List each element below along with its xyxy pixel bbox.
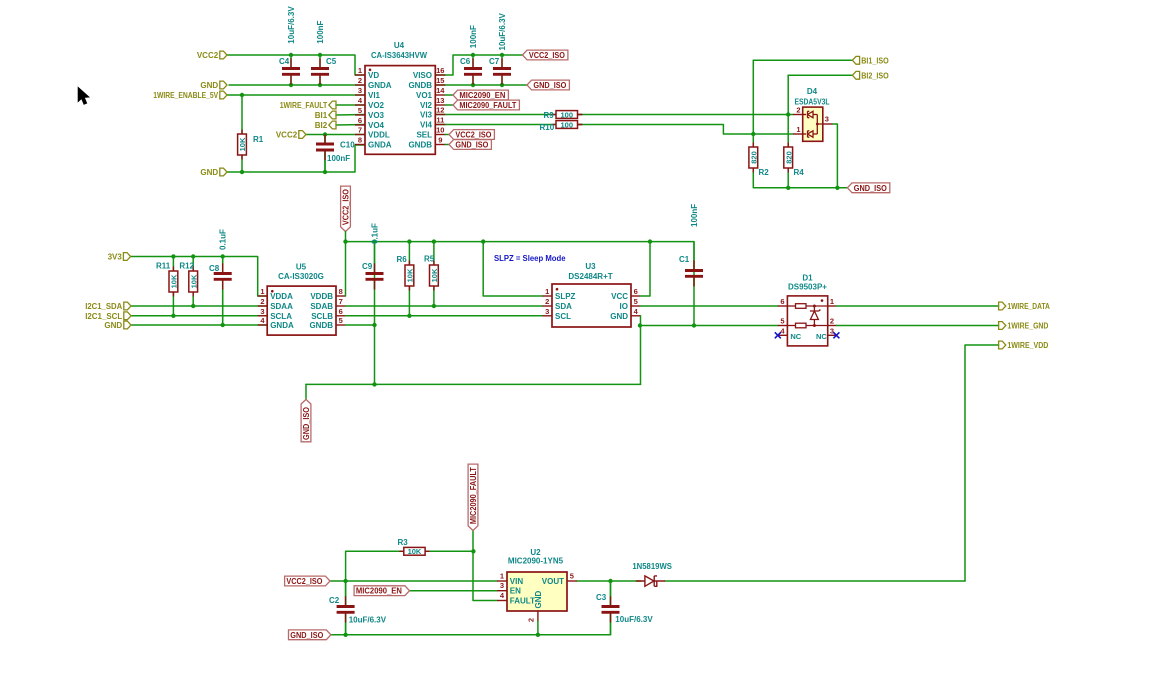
svg-text:5: 5 [570, 572, 574, 581]
svg-text:SDA: SDA [555, 302, 572, 311]
wire U4 VI3 pin12 to R9 [435, 114, 556, 116]
U5 pin1 dot marker [271, 290, 274, 293]
junction VOUT C3 [608, 579, 612, 583]
wire gnd horizontal lower [306, 383, 641, 385]
svg-text:GNDA: GNDA [368, 81, 392, 90]
svg-text:VO3: VO3 [368, 111, 385, 120]
wire SLPZ branch [483, 242, 542, 296]
wire stub pin9 [445, 144, 449, 146]
hier label 1WIRE_GND [999, 322, 1006, 330]
junction rail SLPZ [481, 239, 485, 243]
svg-text:6: 6 [358, 116, 362, 125]
junction rail U3 VCC [648, 239, 652, 243]
svg-text:GNDA: GNDA [270, 321, 294, 330]
svg-text:820: 820 [749, 151, 758, 164]
hier label 1WIRE_VDD [999, 341, 1006, 349]
svg-text:VO2: VO2 [368, 101, 385, 110]
global label GND_ISO vertical [301, 399, 311, 441]
global label GND_ISO right [847, 183, 889, 193]
esd protector D1 DS9503P+ body [787, 296, 827, 346]
svg-text:6: 6 [634, 287, 638, 296]
svg-text:SLPZ = Sleep Mode: SLPZ = Sleep Mode [494, 254, 566, 263]
D4 pin3 stub [823, 123, 833, 125]
wire R4 bottom [787, 168, 789, 188]
svg-text:0.1uF: 0.1uF [371, 223, 380, 244]
svg-text:U3: U3 [585, 262, 596, 271]
wire U2 GND pin down [537, 621, 539, 635]
svg-text:100: 100 [560, 110, 573, 119]
wire D1 pin2 to 1WIRE_GND [836, 325, 998, 327]
wire U4 VI4 pin11 to R10 [435, 124, 556, 126]
svg-text:1WIRE_GND: 1WIRE_GND [1007, 322, 1048, 331]
D1 internal resistor bottom [787, 325, 795, 327]
D4 internal diode top [808, 111, 814, 117]
U3 pin1 dot marker [556, 288, 559, 291]
svg-text:1WIRE_FAULT: 1WIRE_FAULT [280, 101, 328, 110]
svg-text:10K: 10K [406, 268, 415, 282]
D1 internal zener [813, 305, 816, 308]
svg-text:GND_ISO: GND_ISO [302, 407, 311, 440]
svg-text:6: 6 [780, 297, 784, 306]
D1 pin6 [778, 305, 788, 307]
svg-text:2: 2 [545, 297, 549, 306]
svg-text:GND_ISO: GND_ISO [290, 631, 323, 640]
wire BI2 to U4 pin6 [336, 124, 365, 127]
svg-text:NC: NC [790, 332, 801, 341]
svg-text:C6: C6 [460, 57, 471, 66]
svg-text:GND: GND [534, 591, 543, 609]
svg-text:0.1uF: 0.1uF [219, 229, 228, 250]
junction D4 pin2 node [786, 112, 790, 116]
capacitor C1 [693, 242, 695, 326]
hier label BI1 [329, 111, 336, 119]
wire C3 leads [610, 581, 612, 605]
svg-text:VI4: VI4 [420, 121, 433, 130]
svg-text:GNDB: GNDB [408, 81, 432, 90]
wire I2C1_SDA to U5 pin2 [131, 305, 267, 307]
hier label VCC2 [220, 51, 227, 59]
svg-text:10K: 10K [408, 547, 422, 556]
1-wire master U3 DS2484R+T body [552, 284, 631, 327]
U4 pin1 dot marker [369, 69, 372, 72]
junction SDA R12 [191, 304, 195, 308]
schottky diode 1N5819WS [636, 580, 645, 582]
svg-text:CA-IS3643HVW: CA-IS3643HVW [371, 51, 427, 60]
U4 right pins [435, 74, 445, 76]
hier label 1WIRE_ENABLE_5V [220, 91, 227, 99]
svg-text:100nF: 100nF [327, 154, 350, 163]
svg-text:R11: R11 [156, 262, 171, 271]
wire VCC2 to U4 pin7 VDDL [306, 134, 365, 136]
svg-text:16: 16 [436, 66, 444, 75]
D1 pin1 [828, 305, 837, 307]
svg-text:10K: 10K [189, 274, 198, 288]
resistor R10 [552, 124, 557, 126]
wire D1 pin1 to 1WIRE_DATA [836, 305, 998, 307]
junction R4 gnd [786, 186, 790, 190]
capacitor C10 [324, 135, 326, 145]
svg-text:GND: GND [610, 312, 628, 321]
junction U2 gnd [536, 633, 540, 637]
wire C2 leads [345, 581, 347, 605]
svg-text:5: 5 [780, 317, 784, 326]
wire GND row to U4 pin2 [229, 84, 365, 86]
junction 3V3 C8 [221, 254, 225, 258]
wire VCC2_ISO to U2 VIN [330, 580, 497, 582]
svg-text:VCC2_ISO: VCC2_ISO [286, 577, 322, 586]
junction C9 GNDB row [372, 323, 376, 327]
svg-text:VDDB: VDDB [310, 292, 333, 301]
wire stub pin14 [445, 94, 453, 96]
svg-text:VCC2_ISO: VCC2_ISO [342, 189, 351, 225]
svg-text:VI2: VI2 [420, 101, 433, 110]
global label GND_ISO top [527, 80, 569, 90]
wire SCL row U5 to U3 [346, 315, 543, 317]
wire BI2 net down to R4 [787, 115, 789, 148]
wire R3 right to fault node [425, 550, 473, 552]
vcc2_iso rail [346, 241, 695, 243]
U2 pin4 FAULT [497, 600, 507, 602]
resistor R3 [399, 550, 404, 552]
hier label BI2 [329, 121, 336, 129]
svg-text:14: 14 [436, 86, 445, 95]
svg-text:MIC2090_FAULT: MIC2090_FAULT [469, 467, 478, 524]
U5 pins [258, 295, 268, 297]
wire U4 VISO pin16 to VCC2_ISO rail [435, 55, 523, 75]
svg-text:R6: R6 [397, 255, 408, 264]
junction C6 bottom [471, 83, 475, 87]
wire U5 GNDB pin5 to C9 node [346, 324, 375, 326]
capacitor C6 [472, 55, 474, 69]
svg-text:C2: C2 [329, 596, 340, 605]
D4 pin1 stub [793, 133, 806, 135]
svg-text:C5: C5 [326, 57, 337, 66]
wire MIC2090_EN to U2 EN [410, 590, 498, 592]
svg-text:D4: D4 [807, 87, 818, 96]
wire I2C1_SCL to U5 pin3 [131, 315, 267, 317]
junction rail R5 [432, 239, 436, 243]
svg-text:SLPZ: SLPZ [555, 292, 576, 301]
junction U3 gnd [638, 323, 642, 327]
U3 pins [543, 295, 553, 297]
global label VCC2_ISO at SEL [449, 130, 494, 140]
global label MIC2090_FAULT [453, 100, 519, 110]
svg-text:1N5819WS: 1N5819WS [632, 562, 672, 571]
wire R1 bottom to GND [241, 155, 243, 172]
wire 1WIRE_VDD vertical from bottom [965, 345, 999, 581]
svg-text:13: 13 [436, 96, 444, 105]
hier label 1WIRE_DATA [999, 302, 1006, 310]
junction 3V3 R12 [191, 254, 195, 258]
svg-text:12: 12 [436, 106, 444, 115]
svg-text:1WIRE_ENABLE_5V: 1WIRE_ENABLE_5V [153, 91, 219, 100]
D1 internal resistor top [787, 305, 795, 307]
svg-text:SDAB: SDAB [310, 302, 333, 311]
svg-text:3: 3 [500, 581, 504, 590]
U2 pin5 VOUT [567, 580, 577, 582]
esd diode D4 ESDA5V3L body [803, 107, 823, 141]
svg-text:R9: R9 [544, 111, 555, 120]
svg-text:2: 2 [830, 317, 834, 326]
svg-text:R3: R3 [398, 538, 409, 547]
svg-text:VDDL: VDDL [368, 131, 390, 140]
svg-text:GNDB: GNDB [408, 141, 432, 150]
U2 pin3 EN [497, 590, 507, 592]
svg-text:3: 3 [830, 326, 834, 335]
wire 3V3 row to U5 pin1 [131, 257, 268, 297]
svg-text:EN: EN [510, 587, 521, 596]
svg-text:11: 11 [436, 116, 444, 125]
D4 pin2 stub [793, 114, 806, 116]
wire U4 GNDB pin15 to GND_ISO [435, 84, 527, 86]
wire U3 GND down [640, 316, 642, 385]
svg-text:SCLA: SCLA [270, 312, 292, 321]
junction fault R3 [471, 549, 475, 553]
wire stub pin13 [445, 104, 453, 106]
svg-text:1WIRE_DATA: 1WIRE_DATA [1007, 302, 1050, 311]
op-isolator U4 CA-IS3643HVW body [365, 66, 435, 155]
capacitor C9 [374, 242, 376, 385]
global label VCC2_ISO bottom [285, 576, 330, 586]
svg-text:VCC2: VCC2 [197, 51, 219, 60]
wire GND row right [640, 325, 778, 327]
svg-text:SEL: SEL [416, 131, 432, 140]
svg-text:R4: R4 [794, 168, 805, 177]
svg-text:MIC2090_EN: MIC2090_EN [356, 587, 402, 596]
svg-text:MIC2090_FAULT: MIC2090_FAULT [459, 101, 516, 110]
svg-text:1: 1 [260, 287, 264, 296]
junction SCL R11 [171, 314, 175, 318]
junction C4 bottom [289, 83, 293, 87]
global label VCC2_ISO vertical [341, 186, 351, 231]
svg-text:5: 5 [358, 106, 362, 115]
wire SDA row U5 to U3 [346, 305, 543, 307]
svg-text:VCC2: VCC2 [276, 131, 298, 140]
svg-text:GNDB: GNDB [309, 321, 333, 330]
svg-text:10: 10 [436, 126, 444, 135]
capacitor C4 [290, 55, 292, 69]
svg-text:C7: C7 [489, 57, 500, 66]
svg-text:MIC2090-1YN5: MIC2090-1YN5 [508, 557, 564, 566]
svg-text:VCC2_ISO: VCC2_ISO [529, 51, 565, 60]
svg-text:C3: C3 [596, 593, 607, 602]
resistor R2 [752, 143, 754, 148]
svg-text:VCC: VCC [611, 292, 628, 301]
junction rail label [343, 239, 347, 243]
regulator U2 MIC2090-1YN5 body [507, 572, 567, 611]
wire U3 IO to D1 pin6 [641, 305, 779, 307]
resistor R5 [433, 242, 435, 265]
capacitor C2 [345, 581, 347, 607]
svg-text:10K: 10K [430, 268, 439, 282]
svg-text:1: 1 [358, 66, 362, 75]
global label MIC2090_EN [453, 90, 508, 100]
global label MIC2090_FAULT vertical [468, 464, 478, 530]
junction GND C8 [221, 323, 225, 327]
hier label BI1_ISO [852, 56, 859, 64]
svg-text:VOUT: VOUT [542, 577, 564, 586]
capacitor C7 [501, 55, 503, 69]
svg-text:MIC2090_EN: MIC2090_EN [459, 91, 505, 100]
wire R10 to D4 pin1 [578, 125, 794, 135]
junction D4 pin3 gnd [835, 186, 839, 190]
svg-text:2: 2 [796, 106, 800, 115]
wire R3 left branch [346, 551, 404, 581]
svg-text:100: 100 [560, 120, 573, 129]
svg-text:10uF/6.3V: 10uF/6.3V [615, 615, 653, 624]
hier label 3V3 [123, 253, 130, 261]
resistor R11 [172, 267, 174, 272]
svg-text:D1: D1 [802, 274, 813, 283]
wire U3 VCC up to rail [641, 242, 651, 296]
svg-text:I2C1_SCL: I2C1_SCL [85, 312, 122, 321]
svg-text:VI3: VI3 [420, 111, 433, 120]
D1 pin4 NC [778, 334, 788, 336]
svg-text:VI1: VI1 [368, 91, 381, 100]
wire C8 leads [222, 257, 224, 274]
svg-text:1: 1 [500, 572, 504, 581]
resistor R12 [192, 267, 194, 272]
svg-text:U4: U4 [394, 41, 405, 50]
svg-text:IO: IO [620, 302, 628, 311]
wire 1WIRE_FAULT to U4 pin4 [336, 104, 365, 106]
svg-text:10K: 10K [238, 137, 247, 151]
svg-text:9: 9 [438, 136, 442, 145]
svg-text:5: 5 [339, 316, 343, 325]
wire R9 to D4 pin2 [578, 114, 794, 116]
junction C10 top [323, 132, 327, 136]
svg-text:100nF: 100nF [690, 204, 699, 227]
svg-text:R12: R12 [179, 262, 194, 271]
D1 pin2 [828, 325, 837, 327]
junction R1 bottom [240, 170, 244, 174]
svg-text:GND_ISO: GND_ISO [533, 81, 566, 90]
capacitor C3 [610, 581, 612, 607]
svg-text:10uF/6.3V: 10uF/6.3V [349, 616, 387, 625]
wire R11 leads [172, 257, 174, 272]
D4 internal diode bottom [808, 131, 814, 137]
junction C6 top [471, 53, 475, 57]
svg-text:BI2: BI2 [315, 121, 328, 130]
svg-text:R2: R2 [759, 168, 770, 177]
global label GND_ISO at pin9 [449, 140, 491, 150]
D4 internal bus to pin3 [817, 115, 823, 135]
svg-text:3: 3 [825, 114, 829, 123]
svg-text:R1: R1 [253, 135, 264, 144]
svg-text:DS2484R+T: DS2484R+T [568, 272, 612, 281]
wire D4 pin3 to GND_ISO [832, 124, 837, 188]
svg-text:15: 15 [436, 76, 444, 85]
wire MIC2090_FAULT vertical [473, 531, 497, 601]
capacitor C8 [222, 257, 224, 274]
wire gnd to GND_ISO label [305, 384, 307, 399]
resistor R1 [241, 130, 243, 135]
junction C10 bottom [323, 170, 327, 174]
svg-text:R5: R5 [424, 255, 435, 264]
svg-text:3: 3 [260, 307, 264, 316]
svg-text:1: 1 [796, 125, 800, 134]
svg-text:BI2_ISO: BI2_ISO [861, 71, 889, 80]
svg-text:5: 5 [634, 297, 638, 306]
svg-text:3V3: 3V3 [108, 253, 123, 262]
svg-text:6: 6 [339, 307, 343, 316]
junction C2 gnd [343, 633, 347, 637]
wire U2 VOUT to diode [577, 580, 641, 582]
junction C7 bottom [500, 83, 504, 87]
svg-text:GND_ISO: GND_ISO [854, 184, 887, 193]
svg-text:100nF: 100nF [469, 25, 478, 48]
resistor R4 [787, 143, 789, 148]
junction C1 bottom [692, 323, 696, 327]
junction C4 top [289, 53, 293, 57]
wire GND bottom row to U4 pin8 [227, 145, 365, 172]
wire BI1 to U4 pin5 [336, 114, 365, 117]
svg-text:GND: GND [200, 81, 218, 90]
svg-text:FAULT: FAULT [510, 597, 535, 606]
resistor R6 [408, 242, 410, 265]
svg-text:SCLB: SCLB [311, 312, 333, 321]
svg-text:10uF/6.3V: 10uF/6.3V [287, 6, 296, 44]
svg-text:3: 3 [545, 307, 549, 316]
capacitor C5 [319, 55, 321, 69]
hier label I2C1_SDA [124, 302, 131, 310]
svg-text:C10: C10 [340, 141, 355, 150]
junction 3V3 R11 [171, 254, 175, 258]
svg-text:CA-IS3020G: CA-IS3020G [278, 272, 324, 281]
svg-text:1WIRE_VDD: 1WIRE_VDD [1007, 341, 1048, 350]
mouse cursor [78, 88, 89, 105]
svg-text:BI1_ISO: BI1_ISO [861, 56, 889, 65]
svg-text:VO1: VO1 [416, 91, 433, 100]
wire R1 top branch [241, 95, 243, 134]
wire BI1_ISO vertical [752, 60, 754, 134]
wire BI1 net down to R2 [752, 134, 754, 147]
svg-text:10uF/6.3V: 10uF/6.3V [498, 12, 507, 50]
svg-text:2: 2 [358, 76, 362, 85]
wire R12 leads [192, 257, 194, 272]
i2c isolator U5 CA-IS3020G body [267, 286, 336, 335]
U2 pin1 VIN [497, 580, 507, 582]
svg-text:C1: C1 [679, 255, 690, 264]
svg-text:VIN: VIN [510, 577, 524, 586]
wire stub pin10 [445, 134, 449, 136]
wire BI2_ISO vertical [787, 75, 789, 114]
junction C9 bottom [372, 382, 376, 386]
hier label GND [220, 81, 227, 89]
D1 pin5 [778, 325, 788, 327]
D1 pin3 NC [828, 334, 837, 336]
global label VCC2_ISO top [523, 50, 568, 60]
svg-text:1: 1 [545, 287, 549, 296]
svg-text:U5: U5 [296, 263, 307, 272]
junction rail C9 [372, 239, 376, 243]
svg-text:SDAA: SDAA [270, 302, 293, 311]
hier label GND at R1 bottom [220, 168, 227, 176]
svg-text:BI1: BI1 [315, 111, 328, 120]
svg-text:GND: GND [104, 321, 122, 330]
resistor R9 [552, 114, 557, 116]
junction rail R6 [407, 239, 411, 243]
hier label BI2_ISO [852, 71, 859, 79]
global label GND_ISO bottom [289, 630, 331, 640]
svg-text:VO4: VO4 [368, 121, 385, 130]
junction D4 pin1 node [751, 132, 755, 136]
wire GND to U5 pin4 [131, 324, 267, 326]
wire C10 leads [324, 135, 326, 145]
svg-text:VDDA: VDDA [270, 292, 293, 301]
svg-text:SCL: SCL [555, 312, 571, 321]
wire 1WIRE_ENABLE_5V to U4 pin3 [227, 94, 365, 96]
